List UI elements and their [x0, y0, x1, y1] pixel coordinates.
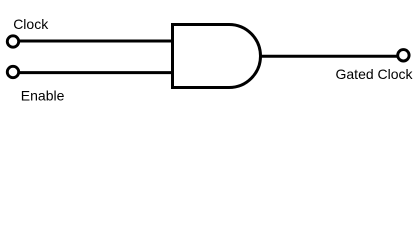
svg-text:Gated Clock: Gated Clock	[336, 66, 414, 82]
svg-text:Enable: Enable	[21, 88, 65, 104]
svg-text:Clock: Clock	[13, 16, 49, 32]
